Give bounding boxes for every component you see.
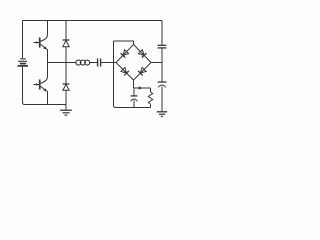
- wire bottom mid rail: [116, 107, 151, 109]
- bridge diode D5 (lower left): [116, 63, 134, 81]
- transistor Q2: [34, 76, 48, 91]
- capacitor C1 (series): [98, 59, 101, 67]
- wire top rail: [23, 20, 163, 22]
- wire load top rail with arrow: [134, 86, 151, 89]
- wire Q1 collector drop: [47, 21, 49, 35]
- wire vertical return left of bridge: [114, 41, 116, 108]
- bridge diode D6 (lower right): [134, 63, 152, 81]
- wire D2 top lead: [65, 63, 67, 85]
- wire right column mid: [161, 48, 163, 63]
- wire bridge right vertex to right column: [151, 62, 162, 64]
- capacitor C2: [158, 45, 167, 48]
- wire Q2 collector drop: [47, 63, 49, 77]
- resistor R1: [148, 88, 152, 108]
- inductor L1: [76, 60, 90, 65]
- bridge diode D3 (upper left): [116, 45, 134, 63]
- wire right column top: [161, 21, 163, 46]
- diode D1: [63, 40, 70, 47]
- wire D2 bottom lead: [65, 90, 67, 109]
- diode D2: [63, 84, 70, 90]
- wire bridge top vertex to vertical return: [114, 41, 134, 45]
- wire Q2 emitter to bottom rail: [47, 91, 49, 105]
- wire D1 bottom lead: [65, 47, 67, 63]
- wire left rail top: [22, 21, 24, 59]
- wire mid rail right to bridge: [101, 62, 116, 64]
- wire bridge bottom vertex down: [133, 80, 135, 88]
- ground right: [157, 112, 167, 117]
- bridge diode D4 (upper right): [134, 45, 152, 63]
- ground left: [60, 110, 72, 115]
- wire mid rail left: [48, 62, 76, 64]
- capacitor C3 (load, polarized): [131, 88, 138, 108]
- wire right column lower: [161, 63, 163, 82]
- wire mid rail middle: [90, 62, 97, 64]
- transistor Q1: [34, 34, 48, 49]
- battery B1: [18, 59, 29, 66]
- wire D1 top lead: [65, 21, 67, 41]
- wire Q1 emitter to mid rail: [47, 49, 49, 63]
- capacitor C4 (polarized): [158, 82, 167, 87]
- wire right column to ground: [161, 87, 163, 112]
- wire left rail bottom: [23, 67, 67, 105]
